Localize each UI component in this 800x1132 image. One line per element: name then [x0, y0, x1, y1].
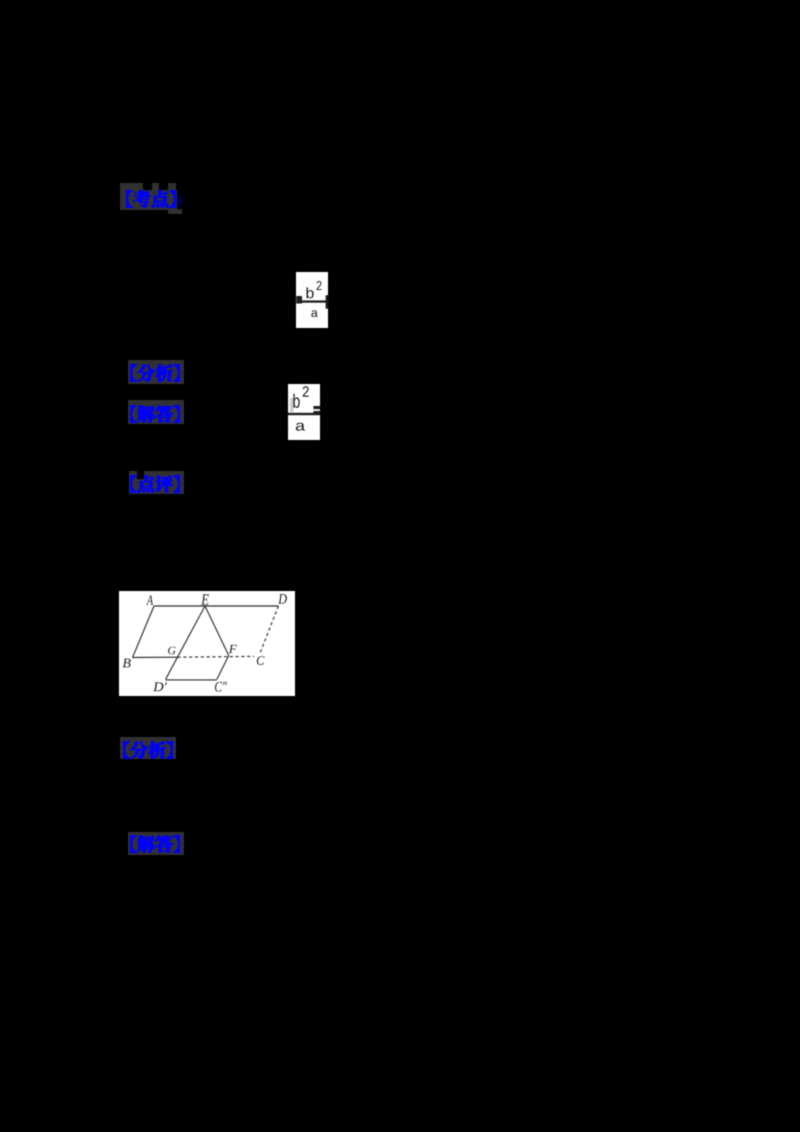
denominator a	[296, 422, 305, 430]
fraction bar	[288, 412, 320, 414]
geometry figure: folded parallelogram ABCD	[119, 591, 295, 697]
label jieda-2 text	[119, 835, 193, 854]
faint blue colon after kaodian bracket	[179, 196, 182, 205]
label dianping highlight	[129, 471, 184, 494]
label C-doubleprime	[215, 681, 227, 691]
numerator b	[293, 393, 299, 407]
label kaodian text	[115, 190, 189, 209]
label fenxi-1 text	[119, 364, 193, 383]
segment BG	[133, 656, 178, 658]
equals fragment top	[313, 406, 320, 409]
label D-prime	[153, 682, 167, 691]
side AB	[133, 606, 155, 658]
fraction bar	[301, 301, 326, 303]
right tick fragment	[325, 295, 328, 309]
numerator b	[306, 288, 313, 299]
label jieda-1 highlight	[128, 400, 184, 424]
faint artifact	[290, 398, 294, 412]
label C	[257, 656, 265, 665]
label dianping text	[119, 475, 193, 494]
denominator a	[311, 310, 317, 317]
label E	[201, 594, 209, 605]
label jieda-1 text	[119, 405, 193, 424]
equals fragment bottom	[313, 411, 320, 415]
dashed segment GC	[178, 655, 255, 658]
formula image 2: b^2/a=	[288, 384, 320, 440]
segment EF	[205, 606, 229, 656]
label kaodian highlight	[120, 190, 177, 210]
segment D'C''	[166, 678, 217, 680]
segment FC''	[217, 655, 229, 679]
label B	[123, 658, 131, 667]
crease ED'	[166, 606, 205, 679]
exponent 2	[316, 281, 321, 290]
label A	[146, 595, 153, 604]
left tick fragment	[296, 296, 302, 304]
highlight fragment row above label1	[120, 183, 144, 190]
formula image 1: b^2/a	[296, 272, 328, 328]
exponent 2	[303, 386, 309, 396]
dashed side DC	[260, 606, 279, 655]
label fenxi-2 text	[112, 741, 186, 760]
label F	[229, 644, 237, 652]
black notch overlapping dianping label	[137, 471, 143, 480]
label fenxi-1 highlight	[128, 360, 184, 384]
label G	[168, 646, 176, 654]
label D	[278, 594, 287, 604]
label jieda-2 highlight	[128, 832, 184, 855]
label fenxi-2 highlight	[120, 737, 175, 760]
side AD top	[154, 605, 278, 607]
